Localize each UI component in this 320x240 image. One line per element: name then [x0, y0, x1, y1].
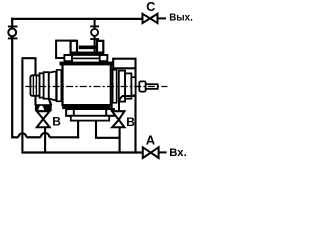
wire: left riser pipe	[11, 18, 13, 139]
pipe: drop from valve B-right to line2	[119, 127, 121, 153]
svg-text:В: В	[52, 115, 61, 129]
machine: left coupling box	[30, 75, 39, 96]
pipe: right discharge wall down to bottom bus	[134, 68, 136, 152]
valve B-left (bypass valve, vertical bowtie)	[37, 111, 50, 127]
machine: right shaft step bar 2	[125, 73, 131, 98]
machine: right discharge box	[113, 59, 135, 69]
machine: bottom tier 2 plate	[66, 109, 114, 116]
machine: left shaft step bar 1	[44, 72, 49, 99]
funnel into valve B-left (bell mouth)	[35, 99, 52, 118]
machine: top tier 3 middle bar	[79, 46, 98, 50]
machine: bottom tier 2 right block	[106, 109, 114, 116]
funnel into valve B-right	[112, 96, 136, 111]
machine: shaft centerline (dash-dot)	[25, 86, 167, 88]
machine: bottom flange bar	[62, 106, 110, 109]
machine: top tier 3 right block	[97, 41, 103, 55]
valve C (outlet valve, bowtie)	[143, 14, 158, 23]
pipe: drop from valve B-left to line2	[44, 127, 46, 153]
crossover bump over B-left drop pipe	[41, 133, 50, 137]
machine: top tier 3 lower bar	[70, 52, 103, 55]
machine: bottom tier 2 left block	[66, 109, 74, 116]
pipe: top connection of pipe2 to machine left end-bell	[21, 57, 36, 59]
machine: top tier 3 left block	[71, 41, 77, 55]
valve B-right seat line	[111, 110, 125, 112]
machine: top steam-chest tall box	[56, 41, 75, 58]
machine: top tier 2 left block	[64, 55, 72, 61]
valve A (inlet valve, bowtie)	[143, 147, 159, 158]
svg-text:Вх.: Вх.	[169, 147, 186, 159]
machine: right shaft stub	[146, 84, 158, 89]
wire: stub right of valve A	[159, 151, 167, 153]
wire: line2 (lower bottom bus) to valve A	[21, 151, 143, 153]
machine: left shaft trapezoid	[49, 71, 57, 100]
pipe: leg2 from machine bottom, elbow east to B-right drop	[96, 121, 120, 138]
machine: bottom tier 3 plate	[71, 116, 109, 121]
orifice symbol O2 hanging from top bus at machine inlet	[90, 19, 99, 53]
pipe: left bypass downcomer (pipe2)	[21, 59, 23, 151]
wire: top bus from left riser to valve C	[11, 18, 142, 20]
machine: right shaft step bar 1	[119, 71, 125, 102]
pipe: leg1 from machine bottom to line1	[77, 121, 79, 139]
machine: top flange bar	[60, 62, 113, 66]
svg-text:Вых.: Вых.	[169, 13, 193, 24]
machine: left end-bell wall lower segment into funnel	[34, 96, 36, 106]
machine: left shaft step bar 2	[40, 73, 44, 97]
machine: right flange plate	[113, 70, 117, 103]
machine: right shaft step bar 3	[131, 77, 135, 95]
machine: main casing body	[63, 64, 111, 105]
crossover bump over pipe2	[18, 133, 26, 137]
machine: left flange plate	[57, 70, 62, 101]
valve B-left seat line	[36, 110, 50, 112]
wire: line1 (upper bottom bus) segments	[12, 136, 18, 138]
machine: top tier 2 plate	[64, 55, 107, 58]
valve B-right (bypass valve, vertical bowtie)	[112, 111, 124, 127]
machine: top tier 2 right block	[100, 55, 108, 61]
svg-text:А: А	[146, 132, 156, 147]
svg-text:В: В	[126, 115, 135, 129]
wire: stub right of valve C	[158, 17, 167, 19]
machine: right coupling box	[139, 81, 145, 91]
orifice symbol O1 on left riser (circle with ticks)	[8, 27, 18, 39]
svg-text:С: С	[146, 0, 155, 14]
machine: left end-bell wall upper segment	[34, 58, 36, 75]
